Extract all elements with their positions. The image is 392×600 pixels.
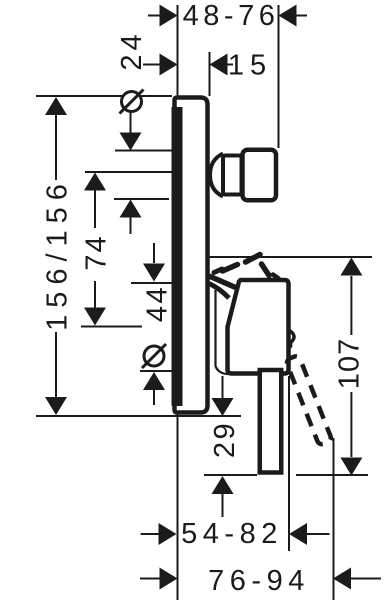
knob lens piece — [210, 154, 223, 197]
svg-text:48-76: 48-76 — [183, 0, 280, 32]
svg-text:74: 74 — [81, 234, 113, 270]
extension line y=475 right segment — [296, 474, 368, 476]
spout pipe — [260, 370, 282, 473]
extension line y=475 spout bottom level — [204, 474, 257, 476]
extension line left vertical x=177.5 (wall/plate face), top segment — [177, 5, 179, 97]
extension line left vertical x=177.5, bottom segment — [177, 414, 179, 600]
extension line y=416 plate bottom level — [36, 415, 241, 417]
lever neck lower curve — [209, 284, 229, 299]
dashed lever down position — [285, 355, 332, 446]
dimension 29 — [209, 376, 241, 517]
diameter symbol O24 top — [120, 90, 144, 151]
svg-text:29: 29 — [209, 421, 241, 458]
dashed lever up position — [214, 255, 279, 279]
wall plate left sleeve bar — [172, 107, 183, 406]
diameter symbol O bottom — [142, 344, 166, 405]
extension line x=333.5 from lever end down — [333, 438, 335, 600]
svg-text:76-94: 76-94 — [208, 565, 310, 597]
extension line x=278.5 right of knob — [278, 5, 280, 148]
extension line y=371 — [140, 370, 176, 372]
handle body — [228, 280, 289, 374]
knob mid cylinder — [223, 156, 242, 195]
arrow up at y199 (44 top / O24 bottom) — [120, 200, 142, 235]
dimension 76-94 — [140, 565, 381, 597]
dimension 74 — [81, 173, 113, 326]
svg-text:15: 15 — [228, 50, 272, 82]
svg-text:24: 24 — [116, 30, 148, 70]
svg-text:44: 44 — [142, 285, 174, 322]
extension line y=258.5 lever top level — [210, 256, 373, 258]
extension line y=172 — [85, 171, 172, 173]
dimension 15 — [210, 50, 273, 82]
extension line x=209.5 above plate — [209, 52, 211, 96]
extension line y=150.5 — [115, 150, 172, 152]
extension line y=326.5 — [81, 326, 142, 328]
wall plate (escutcheon) outline — [175, 98, 208, 413]
dimension 54-82 — [141, 518, 330, 550]
pivot squiggle on body right edge — [289, 330, 295, 347]
dimension 48-76 — [148, 0, 307, 32]
solid lever stub pointing to plate — [209, 276, 238, 289]
svg-text:54-82: 54-82 — [181, 518, 283, 550]
adapter between plate and body — [216, 290, 229, 374]
extension line y=96 plate top level — [36, 95, 172, 97]
dimension 156/156 — [42, 97, 74, 415]
svg-text:156/156: 156/156 — [42, 177, 74, 331]
dimension 107 — [334, 258, 366, 476]
dimension 24 arrow — [116, 30, 178, 75]
extension line y=199 — [114, 198, 169, 200]
extension line y=283 — [131, 282, 172, 284]
extension line x=289 from handle body down — [288, 376, 290, 551]
svg-text:107: 107 — [334, 338, 366, 389]
dimension 44 — [142, 243, 174, 322]
knob end cap — [243, 150, 277, 201]
